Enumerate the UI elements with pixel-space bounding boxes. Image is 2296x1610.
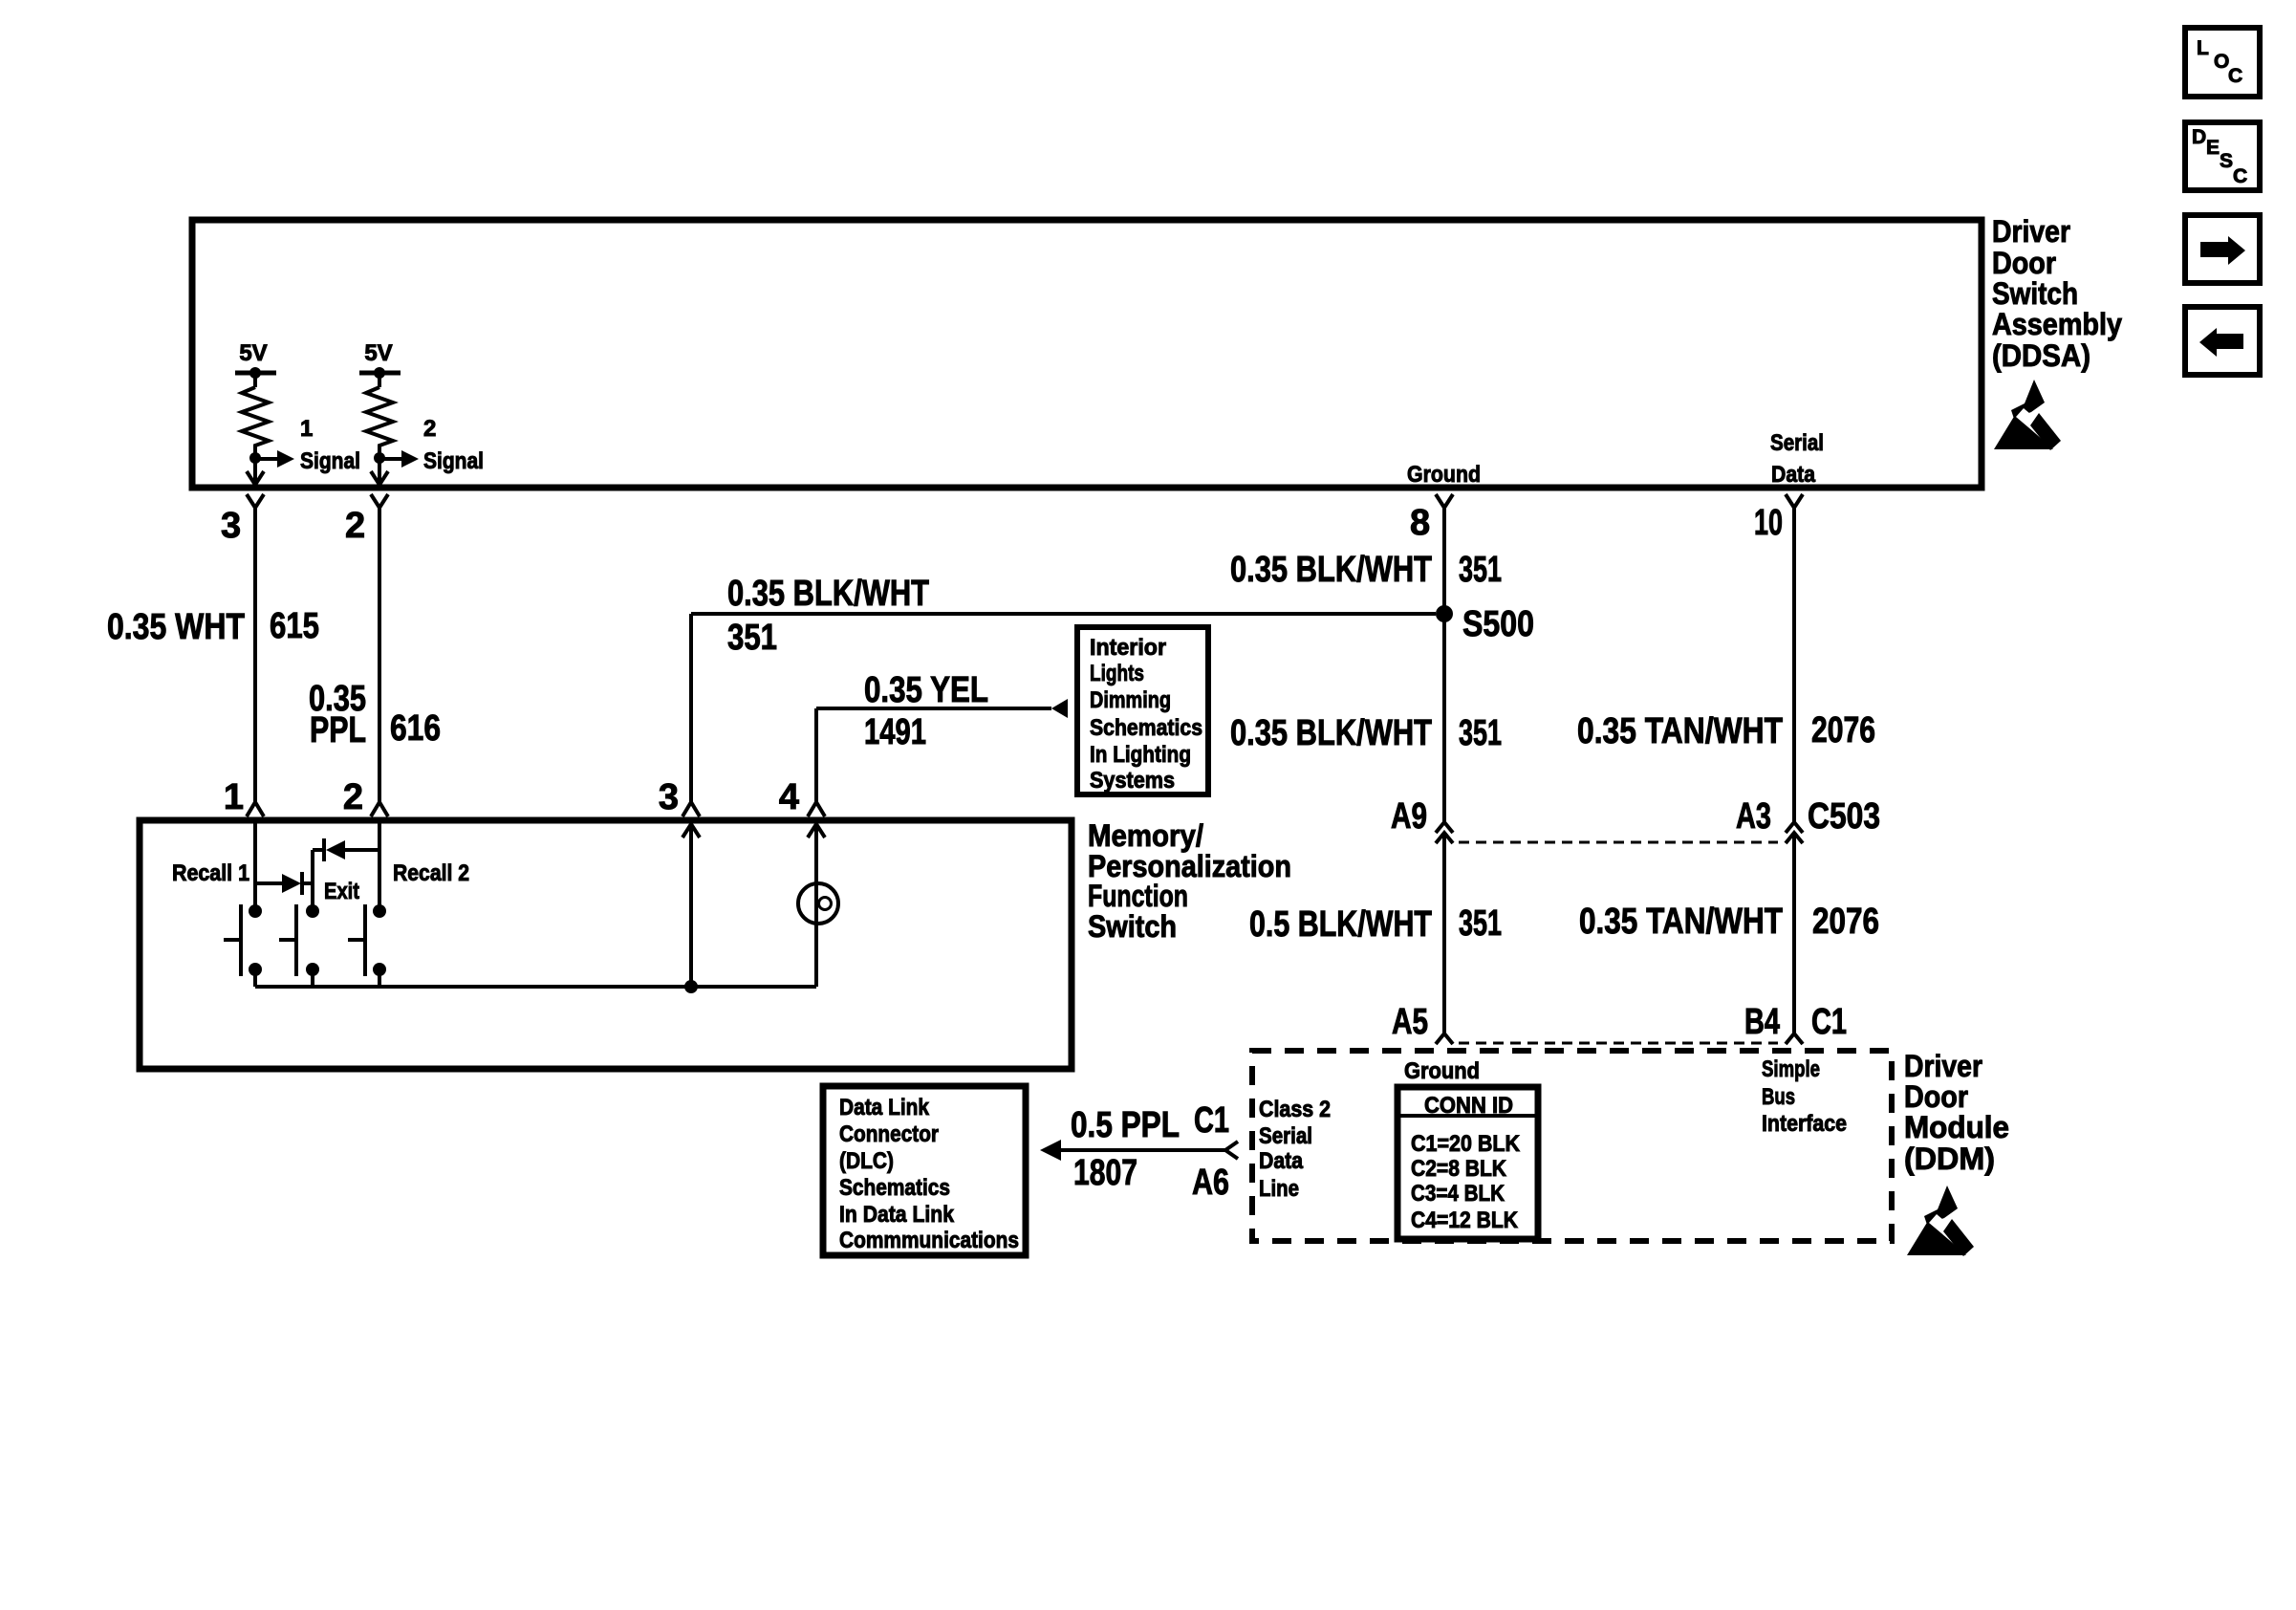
wire 1491: switch pin 4 to interior lights ref	[816, 707, 1051, 710]
svg-text:Signal: Signal	[300, 448, 360, 474]
svg-text:L: L	[2197, 37, 2209, 59]
svg-text:5V: 5V	[364, 340, 392, 366]
connector C503 dashed line	[1459, 841, 1778, 844]
svg-text:2: 2	[345, 506, 365, 546]
diode D1 (recall 1 to exit)	[255, 881, 282, 885]
svg-text:8: 8	[1410, 503, 1430, 543]
wire 351: C503 down to DDM A5	[1442, 833, 1446, 1033]
svg-text:O: O	[2214, 51, 2229, 73]
svg-text:0.5 PPL: 0.5 PPL	[1071, 1105, 1180, 1145]
svg-text:B4: B4	[1744, 1002, 1780, 1042]
wire 615: DDSA pin 3 down to switch pin 1	[253, 508, 257, 802]
svg-text:Recall 2: Recall 2	[393, 860, 469, 886]
svg-text:(DDM): (DDM)	[1904, 1142, 1995, 1176]
svg-text:Commmunications: Commmunications	[839, 1228, 1019, 1253]
svg-text:C1: C1	[1811, 1002, 1847, 1042]
wire 351 branch: down to switch pin 3	[689, 614, 693, 802]
svg-text:0.35 BLK/WHT: 0.35 BLK/WHT	[727, 574, 929, 614]
svg-text:616: 616	[390, 708, 441, 749]
svg-text:0.35 YEL: 0.35 YEL	[864, 670, 988, 710]
svg-text:351: 351	[727, 618, 777, 658]
svg-text:Systems: Systems	[1090, 768, 1175, 794]
connector pin A5	[1436, 1033, 1453, 1044]
svg-text:Dimming: Dimming	[1090, 687, 1171, 713]
svg-text:Class 2: Class 2	[1259, 1097, 1331, 1122]
svg-text:351: 351	[1459, 713, 1502, 753]
svg-text:C1: C1	[1194, 1100, 1229, 1141]
svg-text:Interface: Interface	[1762, 1111, 1847, 1137]
wire 2076 serial: DDSA pin 10 down to C503	[1792, 508, 1796, 822]
svg-text:Line: Line	[1259, 1176, 1299, 1202]
connector pin B4	[1786, 1033, 1803, 1044]
node: R1 bottom junction	[253, 451, 257, 459]
wire 351 branch: horizontal to S500	[691, 612, 1436, 616]
connector C503: ground wire chevrons	[1436, 822, 1453, 833]
svg-text:Signal: Signal	[423, 448, 484, 474]
svg-text:(DLC): (DLC)	[839, 1148, 894, 1174]
svg-text:C: C	[2233, 165, 2247, 187]
resistor R2	[366, 387, 393, 451]
svg-text:Data Link: Data Link	[839, 1095, 930, 1120]
svg-text:Assembly: Assembly	[1992, 307, 2122, 341]
wire: pin 2 into switch	[378, 820, 381, 911]
svg-text:Driver: Driver	[1992, 214, 2070, 249]
svg-text:A5: A5	[1392, 1002, 1428, 1042]
svg-text:D: D	[2192, 126, 2206, 148]
svg-text:C2=8 BLK: C2=8 BLK	[1411, 1156, 1507, 1182]
module box: Driver Door Switch Assembly (DDSA)	[192, 220, 1982, 488]
svg-text:C1=20 BLK: C1=20 BLK	[1411, 1131, 1521, 1157]
svg-text:1: 1	[300, 416, 313, 442]
svg-text:Ground: Ground	[1407, 462, 1481, 488]
wire: exit branch vertical	[311, 850, 314, 911]
legend box right-arrow	[2185, 215, 2260, 283]
svg-text:Door: Door	[1992, 246, 2056, 280]
svg-text:1807: 1807	[1073, 1153, 1137, 1193]
svg-text:Switch: Switch	[1992, 276, 2078, 311]
legend box DESC	[2185, 122, 2260, 190]
bottom bus wire	[255, 985, 816, 989]
svg-text:351: 351	[1459, 550, 1502, 590]
svg-text:Module: Module	[1904, 1110, 2009, 1144]
svg-text:615: 615	[270, 606, 319, 646]
node: R2 bottom junction	[378, 451, 381, 459]
wire 351 ground: DDSA pin 8 down to C503	[1442, 508, 1446, 822]
svg-text:5V: 5V	[239, 340, 267, 366]
svg-text:Interior: Interior	[1090, 635, 1166, 661]
svg-text:0.35 BLK/WHT: 0.35 BLK/WHT	[1230, 550, 1432, 590]
svg-text:Serial: Serial	[1259, 1123, 1312, 1149]
svg-text:2: 2	[343, 777, 363, 817]
svg-text:4: 4	[779, 777, 799, 817]
svg-text:351: 351	[1459, 903, 1502, 944]
connector pin 2 (switch)	[371, 802, 388, 816]
svg-text:Function: Function	[1088, 879, 1188, 913]
svg-text:0.35 WHT: 0.35 WHT	[107, 607, 245, 647]
svg-text:PPL: PPL	[310, 710, 366, 751]
svg-text:Lights: Lights	[1090, 661, 1144, 686]
connector pin 4 (switch)	[808, 802, 825, 816]
connector pin 3 (switch)	[682, 802, 700, 816]
wire: pin 4 through switch with up arrow	[814, 820, 818, 987]
switch contact (x=267)	[249, 904, 262, 918]
lamp: switch illumination	[798, 883, 838, 924]
switch contact (x=327)	[306, 904, 319, 918]
wire 2076: C503 down to DDM B4	[1792, 833, 1796, 1033]
legend box LOC	[2185, 28, 2260, 97]
svg-text:In Lighting: In Lighting	[1090, 742, 1191, 768]
svg-text:C: C	[2228, 65, 2242, 87]
5V supply 2 T-bar	[359, 371, 401, 376]
ESD symbol (DDM)	[1907, 1186, 1980, 1259]
wire: R2 to pin 2 with down arrow	[378, 459, 381, 483]
svg-text:Simple: Simple	[1762, 1056, 1820, 1082]
svg-text:Schematics: Schematics	[1090, 715, 1202, 741]
wire 1807: DDM C1/A6 to DLC	[1061, 1148, 1225, 1152]
svg-text:C3=4 BLK: C3=4 BLK	[1411, 1181, 1505, 1207]
connector C503: serial wire chevrons	[1786, 822, 1803, 833]
wire: 5V to resistor R1	[253, 373, 257, 387]
svg-text:2076: 2076	[1811, 710, 1875, 751]
svg-text:Exit: Exit	[324, 879, 359, 904]
arrow: signal 2 tap	[379, 457, 402, 461]
svg-text:Connector: Connector	[839, 1121, 939, 1147]
reference box: Data Link Connector (DLC)	[823, 1086, 1026, 1255]
svg-text:Door: Door	[1904, 1079, 1968, 1114]
legend box left-arrow	[2185, 307, 2260, 375]
svg-text:C4=12 BLK: C4=12 BLK	[1411, 1207, 1519, 1233]
svg-text:S: S	[2220, 150, 2233, 172]
ESD symbol (DDSA)	[1994, 380, 2067, 453]
svg-text:0.35 TAN/WHT: 0.35 TAN/WHT	[1579, 902, 1783, 942]
svg-text:0.35 BLK/WHT: 0.35 BLK/WHT	[1230, 713, 1432, 753]
connector pin 10 (DDSA)	[1786, 494, 1803, 508]
svg-text:Recall 1: Recall 1	[172, 860, 249, 886]
svg-text:0.5 BLK/WHT: 0.5 BLK/WHT	[1249, 904, 1432, 945]
module box: Driver Door Module (DDM) dashed	[1252, 1051, 1892, 1241]
wire: pin 3 through switch with up arrow	[689, 820, 693, 987]
svg-text:E: E	[2206, 137, 2220, 159]
svg-text:(DDSA): (DDSA)	[1992, 338, 2090, 373]
connector C1 dashed line	[1459, 1042, 1778, 1045]
connector pin 1 (switch)	[247, 802, 264, 816]
svg-text:1: 1	[224, 777, 244, 817]
reference box: Interior Lights Dimming Schematics	[1077, 627, 1208, 794]
svg-text:Serial: Serial	[1770, 430, 1824, 456]
svg-text:In Data Link: In Data Link	[839, 1202, 955, 1228]
svg-text:Ground: Ground	[1404, 1058, 1480, 1084]
module box: Memory/Personalization Function Switch	[140, 820, 1072, 1069]
5V supply 1 T-bar	[235, 371, 276, 376]
arrowhead to interior lights box	[1051, 699, 1068, 718]
wire 616: DDSA pin 2 down to switch pin 2	[378, 508, 381, 802]
svg-text:Driver: Driver	[1904, 1049, 1982, 1083]
svg-text:A3: A3	[1736, 796, 1771, 837]
svg-text:A9: A9	[1391, 796, 1427, 837]
svg-text:Memory/: Memory/	[1088, 818, 1203, 853]
svg-text:1491: 1491	[864, 712, 926, 752]
wire: R1 to pin 3 with down arrow	[253, 459, 257, 483]
svg-text:Data: Data	[1771, 462, 1816, 488]
resistor R1	[242, 387, 269, 451]
connector pin 2 (DDSA)	[371, 494, 388, 508]
diode D2 (recall 2 to exit)	[313, 848, 324, 852]
arrow: signal 1 tap	[255, 457, 278, 461]
CONN ID table	[1397, 1087, 1538, 1239]
svg-text:CONN ID: CONN ID	[1424, 1093, 1513, 1119]
junction: bus / pin-3 wire	[684, 980, 698, 993]
connector pin 8 (DDSA)	[1436, 494, 1453, 508]
svg-text:Bus: Bus	[1762, 1084, 1795, 1110]
svg-text:Switch: Switch	[1088, 909, 1177, 944]
splice S500	[1436, 605, 1453, 622]
svg-text:3: 3	[221, 506, 241, 546]
svg-text:2: 2	[423, 416, 436, 442]
connector pin 3 (DDSA)	[247, 494, 264, 508]
wire 351: S500 down to C503 (A9)	[1442, 614, 1446, 822]
svg-text:0.35 TAN/WHT: 0.35 TAN/WHT	[1577, 711, 1783, 751]
svg-text:S500: S500	[1462, 604, 1534, 644]
wire: pin 1 into switch	[253, 820, 257, 911]
svg-text:Schematics: Schematics	[839, 1175, 950, 1201]
svg-text:C503: C503	[1808, 796, 1880, 837]
svg-text:A6: A6	[1192, 1163, 1229, 1203]
svg-text:2076: 2076	[1812, 902, 1879, 942]
svg-text:Data: Data	[1259, 1148, 1304, 1174]
switch contact (x=397)	[373, 904, 386, 918]
svg-text:10: 10	[1754, 503, 1783, 543]
wire: 5V to resistor R2	[378, 373, 381, 387]
svg-text:3: 3	[659, 777, 679, 817]
